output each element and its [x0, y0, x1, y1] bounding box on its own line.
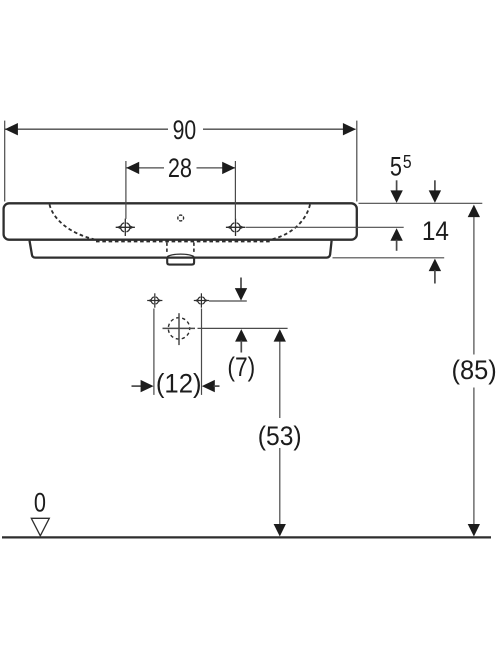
- dimension 14 upper arrow (down): [434, 180, 436, 191]
- reference line apron bottom (extended right): [333, 257, 445, 259]
- dimension 28 arrow right: [222, 162, 235, 174]
- fixing bolt hole right: [194, 293, 209, 307]
- svg-text:14: 14: [422, 217, 449, 246]
- svg-text:(85): (85): [451, 354, 496, 385]
- svg-text:0: 0: [34, 489, 46, 519]
- floor line: [2, 536, 491, 538]
- dimension (53) label: [258, 422, 302, 451]
- dimension 90 arrow left: [5, 123, 18, 135]
- dimension (12) label: [156, 368, 202, 398]
- reference line tap plane (extended right): [246, 226, 404, 228]
- svg-text:5: 5: [403, 151, 412, 173]
- hidden bowl bottom (dashed): [96, 240, 270, 242]
- dimension 5.5 lower arrow (up): [390, 228, 402, 241]
- washbasin apron (lower tier): [30, 241, 332, 258]
- svg-text:90: 90: [173, 116, 197, 146]
- dimension 90 line: [5, 128, 168, 130]
- dimension 90 extension line right: [356, 121, 358, 202]
- dimension (85) line lower part: [473, 388, 475, 525]
- dimension (7) lower arrow (up): [235, 329, 247, 342]
- svg-text:(7): (7): [227, 354, 255, 383]
- reference line drain center (horizontal): [163, 327, 196, 329]
- dimension 28 extension line left: [125, 161, 127, 219]
- hidden bowl contour left (dashed): [50, 205, 97, 240]
- dimension 28 extension line right: [234, 161, 236, 219]
- dimension 90 arrow right: [343, 123, 356, 135]
- fixing bolt hole left: [147, 293, 162, 307]
- dimension 14 label: [422, 217, 449, 246]
- dimension 5.5 upper arrow (down): [396, 180, 398, 191]
- dimension (85) label: [451, 354, 496, 385]
- reference line bolt holes (extended right): [209, 300, 247, 302]
- dimension (53) line lower part: [279, 448, 281, 524]
- dimension (53) line upper part: [274, 329, 286, 342]
- dimension (7) upper arrow (down): [240, 278, 242, 290]
- svg-text:(12): (12): [156, 368, 202, 398]
- hidden bowl contour right (dashed): [272, 205, 311, 240]
- dimension (12) right arrow (pointing left): [202, 380, 215, 392]
- svg-text:(53): (53): [258, 422, 302, 451]
- drain hole vertical centerline: [178, 313, 180, 345]
- reference line basin top (extended right): [359, 202, 483, 204]
- dimension (12) extension line left: [153, 309, 155, 395]
- dimension 90 label: [173, 116, 197, 146]
- dimension 5.5 label: [390, 152, 402, 182]
- dimension (85) upper arrow (up): [468, 205, 480, 218]
- hidden drain lines (dashed): [166, 243, 168, 254]
- overflow hole (small circle): [178, 215, 184, 221]
- tap hole right: [226, 219, 245, 236]
- dimension 28 arrow left: [126, 162, 139, 174]
- tap hole left: [116, 219, 135, 236]
- svg-text:5: 5: [390, 152, 402, 182]
- datum triangle: [31, 518, 49, 536]
- drain trap cover: [167, 257, 194, 265]
- drain hole circle (dashed): [168, 318, 189, 339]
- svg-text:28: 28: [168, 154, 192, 184]
- dimension (12) extension line right: [201, 309, 203, 395]
- dimension 28 label: [168, 154, 192, 184]
- datum 0 label: [34, 489, 46, 519]
- dimension (12) left arrow (pointing right): [132, 385, 142, 387]
- dimension (7) label: [227, 354, 255, 383]
- washbasin body outline: [4, 203, 357, 239]
- dimension 90 extension line left: [4, 121, 6, 202]
- dimension 14 lower arrow (up): [429, 259, 441, 272]
- dimension 28 line: [126, 167, 164, 169]
